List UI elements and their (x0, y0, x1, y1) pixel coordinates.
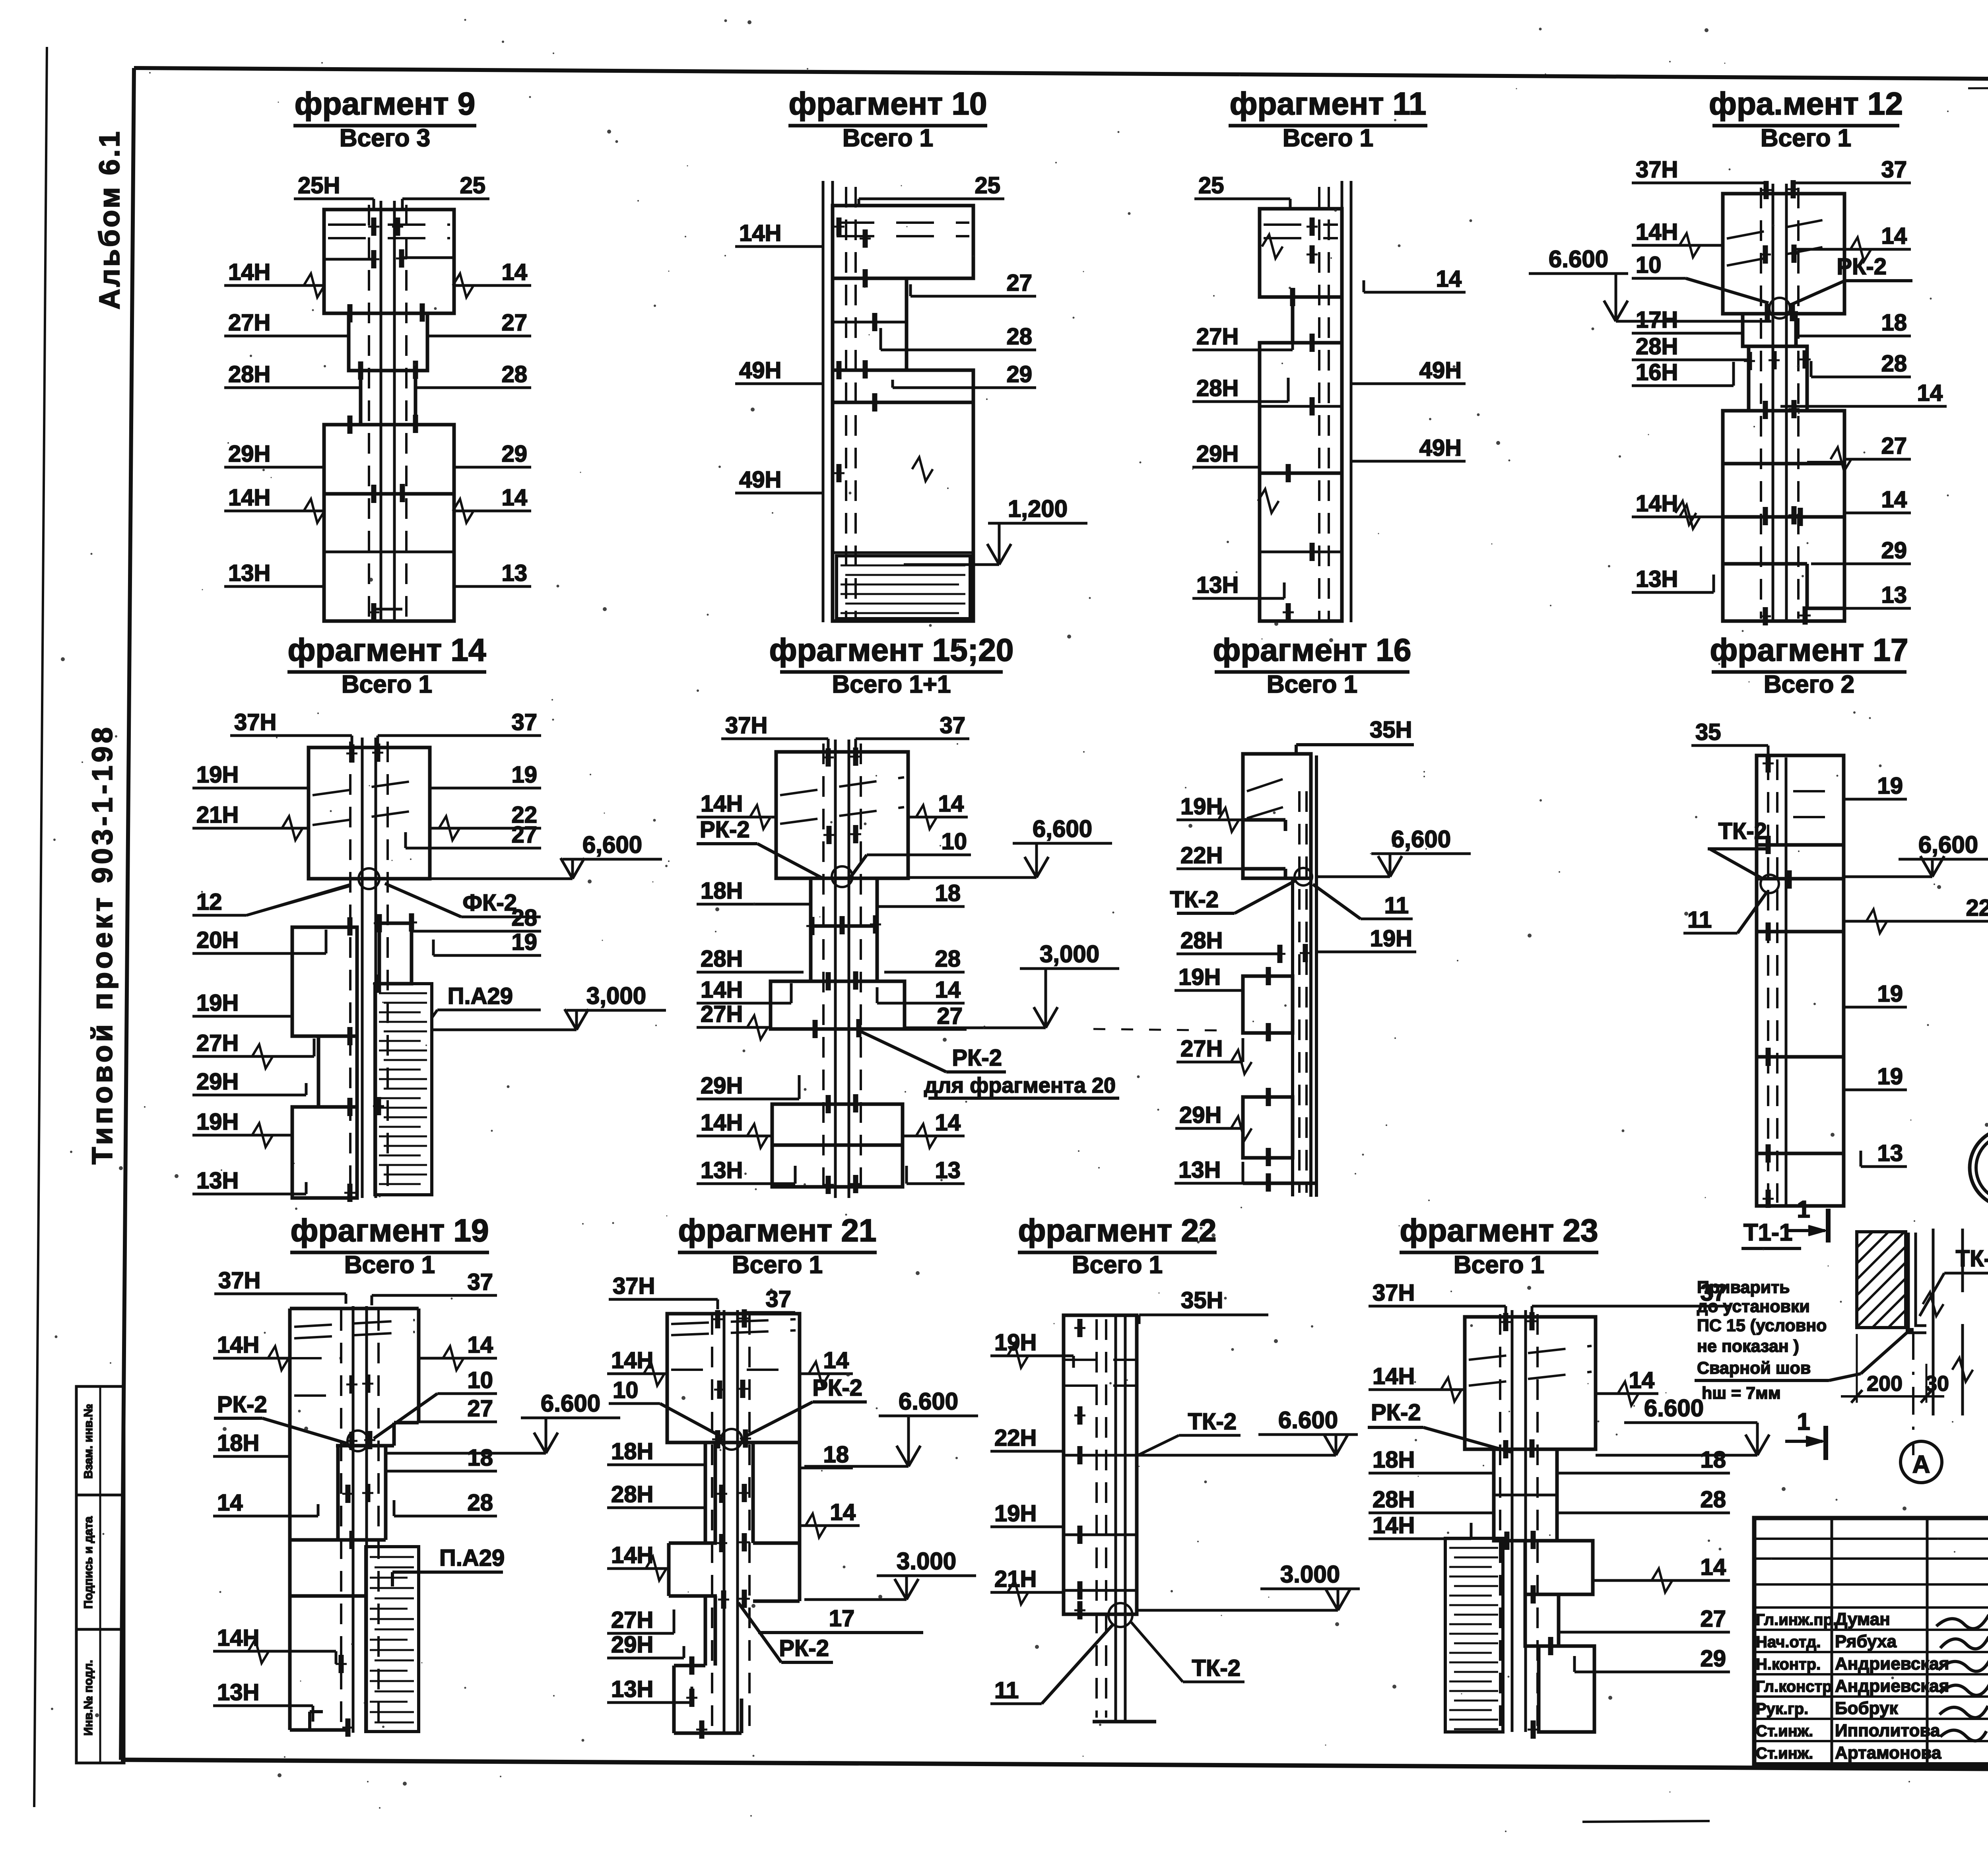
svg-text:Андриевская: Андриевская (1835, 1654, 1949, 1674)
fragment 19 hatch П.А29 (366, 1547, 419, 1732)
svg-text:ТК-2: ТК-2 (1192, 1655, 1241, 1681)
svg-text:Всего 1: Всего 1 (1761, 124, 1851, 152)
svg-text:фрагмент 21: фрагмент 21 (678, 1213, 876, 1248)
svg-text:Н.контр.: Н.контр. (1756, 1656, 1821, 1673)
svg-text:29: 29 (1700, 1646, 1726, 1672)
svg-text:18Н: 18Н (611, 1439, 653, 1464)
svg-text:11: 11 (994, 1677, 1019, 1703)
svg-text:18: 18 (1881, 310, 1907, 336)
svg-text:19: 19 (511, 762, 537, 788)
svg-text:13: 13 (1877, 1140, 1903, 1166)
svg-text:РК-2: РК-2 (952, 1045, 1002, 1071)
svg-text:фрагмент 9: фрагмент 9 (295, 86, 476, 121)
svg-text:18: 18 (935, 880, 961, 906)
fragment 22 ticks (1077, 1319, 1083, 1337)
svg-text:Подпись и дата: Подпись и дата (82, 1516, 95, 1609)
fragment 22 node (1109, 1603, 1132, 1627)
svg-text:27Н: 27Н (1196, 324, 1239, 349)
svg-text:фрагмент 10: фрагмент 10 (788, 86, 987, 121)
title block outer frame (1754, 1518, 1988, 1765)
fragment 21 column (723, 1310, 726, 1734)
svg-text:1: 1 (1797, 1196, 1810, 1223)
svg-text:14Н: 14Н (1636, 219, 1678, 245)
fragment 9 panels (324, 210, 454, 313)
svg-text:27: 27 (511, 822, 537, 848)
svg-text:для фрагмента 20: для фрагмента 20 (924, 1074, 1116, 1097)
node 13 circle (1970, 1128, 1988, 1207)
fragment 14 hatch (panel П.А29) (375, 984, 432, 1195)
fragment 10 panels (833, 206, 973, 278)
svg-text:13Н: 13Н (611, 1676, 653, 1702)
svg-text:РК-2: РК-2 (1837, 254, 1887, 280)
fragment 19 ticks (349, 1375, 355, 1394)
detail A hatched column section (1857, 1232, 1906, 1328)
fragment 15 node (832, 866, 852, 887)
svg-text:28: 28 (1700, 1487, 1726, 1512)
svg-text:18: 18 (1700, 1447, 1726, 1473)
svg-text:6.600: 6.600 (899, 1388, 958, 1415)
svg-text:А: А (1912, 1451, 1930, 1478)
fragment 12 ticks (1764, 181, 1769, 199)
fragment 14 node (359, 868, 379, 889)
svg-text:22: 22 (1966, 895, 1988, 921)
svg-text:28Н: 28Н (228, 361, 270, 387)
svg-text:27Н: 27Н (228, 310, 270, 336)
fragment 17 panel (1757, 755, 1844, 1206)
svg-text:не показан ): не показан ) (1697, 1337, 1799, 1356)
svg-text:3.000: 3.000 (1280, 1561, 1340, 1588)
detail A dim 200 30 (1856, 1334, 1858, 1403)
svg-text:Артамонова: Артамонова (1835, 1743, 1941, 1763)
svg-text:ФК-2: ФК-2 (463, 890, 517, 916)
fragment 11 panels (1260, 209, 1342, 297)
svg-text:29Н: 29Н (228, 441, 270, 467)
svg-text:29: 29 (1881, 538, 1907, 563)
svg-text:фрагмент 14: фрагмент 14 (287, 632, 486, 668)
svg-text:Взам. инв.№: Взам. инв.№ (82, 1404, 95, 1479)
fragment 16 node (1295, 868, 1312, 885)
svg-text:14: 14 (1881, 487, 1907, 513)
svg-text:27Н: 27Н (611, 1607, 653, 1633)
svg-text:6.600: 6.600 (1549, 246, 1608, 272)
fragment 22 wall (1114, 1315, 1117, 1722)
svg-text:14: 14 (501, 485, 527, 511)
svg-text:Ст.инж.: Ст.инж. (1756, 1745, 1813, 1762)
fragment 16 ticks (1277, 945, 1283, 963)
svg-text:Гл.инж.пр.: Гл.инж.пр. (1756, 1611, 1837, 1629)
svg-text:18Н: 18Н (701, 878, 743, 904)
svg-text:27: 27 (501, 310, 527, 336)
svg-text:13Н: 13Н (701, 1157, 743, 1183)
svg-text:6,600: 6,600 (1918, 831, 1978, 858)
svg-text:37: 37 (765, 1286, 791, 1312)
svg-text:49Н: 49Н (1419, 357, 1462, 383)
svg-text:19: 19 (1877, 773, 1903, 799)
svg-text:18Н: 18Н (217, 1430, 259, 1456)
svg-text:13Н: 13Н (196, 1168, 239, 1194)
svg-text:РК-2: РК-2 (812, 1375, 862, 1401)
svg-text:29Н: 29Н (196, 1069, 239, 1095)
detail A panel edge lines right (1932, 1229, 1935, 1415)
title block name rows (1754, 1629, 1988, 1631)
svg-text:28: 28 (511, 905, 537, 931)
svg-text:Всего 1: Всего 1 (342, 671, 432, 698)
svg-text:6.600: 6.600 (1278, 1407, 1338, 1433)
svg-text:29: 29 (501, 441, 527, 467)
fragment 9 ticks (371, 217, 377, 236)
svg-text:Ипполитова: Ипполитова (1835, 1721, 1940, 1740)
svg-text:П.А29: П.А29 (439, 1545, 505, 1571)
svg-text:фра.мент 12: фра.мент 12 (1709, 86, 1903, 121)
svg-text:19Н: 19Н (1180, 794, 1223, 819)
svg-text:Т1-1: Т1-1 (1743, 1219, 1792, 1246)
svg-text:Всего 1: Всего 1 (1283, 124, 1373, 152)
fragment 12 node (1769, 298, 1790, 318)
fragment 17 node (1761, 875, 1779, 893)
svg-text:13Н: 13Н (217, 1679, 259, 1705)
svg-text:27: 27 (467, 1396, 493, 1421)
svg-text:49Н: 49Н (1419, 435, 1462, 461)
svg-text:РК-2: РК-2 (700, 817, 750, 843)
svg-text:6.600: 6.600 (1644, 1395, 1704, 1421)
svg-text:14: 14 (1436, 266, 1462, 292)
svg-text:14: 14 (467, 1332, 493, 1358)
svg-text:Всего 1: Всего 1 (843, 124, 933, 152)
svg-text:28: 28 (501, 361, 527, 387)
svg-text:Рук.гр.: Рук.гр. (1756, 1700, 1808, 1718)
fragment 15 panels (776, 752, 908, 878)
fragment 10 wall (822, 181, 825, 622)
svg-text:6.600: 6.600 (541, 1390, 600, 1417)
left page border line (34, 47, 47, 1807)
svg-text:Нач.отд.: Нач.отд. (1756, 1633, 1821, 1651)
svg-text:29Н: 29Н (1179, 1102, 1221, 1128)
svg-text:21Н: 21Н (196, 802, 239, 828)
svg-text:22Н: 22Н (1180, 843, 1223, 868)
svg-text:13Н: 13Н (1636, 566, 1678, 592)
svg-text:28Н: 28Н (611, 1481, 653, 1507)
fragment 14 ticks (349, 744, 355, 763)
svg-text:25: 25 (975, 173, 1000, 198)
title block left rows upper (1754, 1538, 1988, 1540)
svg-text:28Н: 28Н (1636, 334, 1678, 359)
svg-text:ТК-2: ТК-2 (1718, 818, 1767, 844)
svg-text:37: 37 (1881, 157, 1907, 182)
svg-text:37Н: 37Н (234, 709, 276, 735)
svg-text:14Н: 14Н (701, 791, 743, 817)
svg-text:14: 14 (1881, 223, 1907, 249)
dashed artifact line below frame top (1968, 87, 1988, 88)
fragment 22 panels (1064, 1315, 1137, 1614)
svg-text:200: 200 (1867, 1372, 1903, 1396)
svg-text:29Н: 29Н (701, 1073, 743, 1099)
svg-text:фрагмент 23: фрагмент 23 (1400, 1213, 1598, 1248)
fragment 23 panels (1465, 1317, 1596, 1449)
svg-text:25Н: 25Н (298, 173, 340, 198)
svg-text:19: 19 (1877, 981, 1903, 1007)
svg-text:14Н: 14Н (228, 485, 270, 511)
svg-text:14: 14 (823, 1347, 849, 1373)
svg-text:14: 14 (1917, 380, 1943, 406)
svg-text:Типовой проект 903-1-198: Типовой проект 903-1-198 (87, 724, 118, 1165)
svg-text:14: 14 (935, 977, 961, 1003)
svg-text:11: 11 (1687, 907, 1712, 933)
svg-text:19Н: 19Н (1178, 964, 1221, 990)
svg-text:14Н: 14Н (701, 977, 743, 1003)
svg-text:Всего 1+1: Всего 1+1 (832, 671, 951, 698)
fragment 9 column (380, 201, 382, 621)
svg-text:35Н: 35Н (1370, 717, 1412, 743)
fragment 17 ticks (1766, 754, 1771, 773)
svg-text:29: 29 (1006, 361, 1032, 387)
svg-text:17: 17 (829, 1606, 855, 1631)
fragment 12 panels (1723, 194, 1844, 314)
fragment 21 panels (667, 1314, 800, 1442)
drawing frame (134, 68, 1988, 82)
detail A centerline (1912, 1332, 1914, 1455)
svg-text:13: 13 (935, 1157, 961, 1183)
svg-text:6,600: 6,600 (1033, 815, 1092, 842)
svg-text:13Н: 13Н (1178, 1157, 1221, 1183)
svg-text:ТК-2: ТК-2 (1188, 1409, 1237, 1435)
svg-text:11: 11 (1384, 893, 1409, 918)
svg-text:фрагмент 16: фрагмент 16 (1213, 632, 1411, 668)
fragment 15 ticks (826, 748, 831, 767)
svg-text:Всего 3: Всего 3 (340, 124, 430, 152)
svg-text:27: 27 (1700, 1606, 1726, 1632)
svg-text:Ст.инж.: Ст.инж. (1756, 1722, 1813, 1740)
title block left columns (1831, 1518, 1833, 1765)
svg-text:28: 28 (935, 946, 961, 972)
fragment 15 column (834, 740, 837, 1198)
fragment 11 ticks (1310, 217, 1315, 236)
svg-text:14: 14 (1629, 1367, 1654, 1393)
svg-text:14Н: 14Н (217, 1332, 259, 1358)
fragment 16 panels (1243, 754, 1311, 878)
fragment 14 panels (309, 747, 430, 879)
svg-text:14Н: 14Н (701, 1110, 743, 1136)
svg-text:hш = 7мм: hш = 7мм (1702, 1384, 1781, 1403)
svg-text:10: 10 (467, 1367, 493, 1393)
svg-text:35: 35 (1695, 719, 1721, 745)
svg-text:Всего 1: Всего 1 (1267, 671, 1357, 698)
svg-text:37Н: 37Н (218, 1268, 260, 1293)
svg-text:6,600: 6,600 (582, 831, 642, 858)
svg-text:19Н: 19Н (196, 762, 239, 788)
svg-text:14: 14 (830, 1499, 856, 1525)
svg-text:П.А29: П.А29 (448, 983, 513, 1009)
svg-text:Всего 1: Всего 1 (1454, 1251, 1544, 1279)
detail A weld plate (1908, 1233, 1926, 1333)
svg-text:14Н: 14Н (228, 259, 270, 285)
svg-text:14: 14 (1700, 1554, 1726, 1580)
svg-text:28Н: 28Н (1180, 928, 1223, 953)
svg-text:14Н: 14Н (739, 220, 781, 246)
svg-text:16Н: 16Н (1636, 359, 1678, 385)
svg-text:25: 25 (460, 173, 485, 198)
svg-text:14: 14 (938, 791, 964, 817)
svg-text:РК-2: РК-2 (217, 1392, 267, 1417)
svg-text:19Н: 19Н (196, 990, 239, 1016)
svg-text:3,000: 3,000 (586, 982, 646, 1009)
detail A bubble А (1901, 1441, 1942, 1483)
svg-text:29Н: 29Н (1196, 441, 1239, 467)
svg-text:фрагмент 15;20: фрагмент 15;20 (769, 632, 1014, 668)
svg-text:19Н: 19Н (196, 1109, 239, 1135)
svg-text:25: 25 (1198, 173, 1224, 198)
fragment 21 node (721, 1429, 742, 1450)
svg-text:1,200: 1,200 (1008, 495, 1068, 522)
svg-text:1: 1 (1797, 1408, 1810, 1435)
svg-text:фрагмент 22: фрагмент 22 (1018, 1213, 1216, 1248)
svg-text:3.000: 3.000 (897, 1548, 956, 1574)
svg-text:35Н: 35Н (1181, 1287, 1223, 1313)
left sidebar stamp boxes (76, 1386, 124, 1763)
svg-text:12: 12 (196, 889, 222, 915)
svg-text:27: 27 (937, 1003, 963, 1029)
svg-text:14: 14 (217, 1490, 243, 1516)
fragment 10 ticks (837, 217, 842, 236)
svg-text:37: 37 (467, 1269, 493, 1295)
svg-text:Сварной шов: Сварной шов (1697, 1359, 1811, 1378)
svg-text:37Н: 37Н (725, 713, 767, 738)
svg-text:Инв.№ подл.: Инв.№ подл. (82, 1660, 95, 1736)
svg-text:3,000: 3,000 (1040, 941, 1099, 967)
fragment 11 wall (1341, 181, 1343, 622)
svg-text:Всего 2: Всего 2 (1764, 671, 1854, 698)
svg-text:фрагмент 17: фрагмент 17 (1710, 632, 1908, 668)
svg-text:10: 10 (941, 829, 967, 854)
svg-text:Бобрук: Бобрук (1835, 1699, 1898, 1718)
svg-text:Рябуха: Рябуха (1835, 1632, 1897, 1651)
svg-text:ПС 15 (условно: ПС 15 (условно (1697, 1316, 1827, 1335)
svg-text:6,600: 6,600 (1391, 826, 1451, 852)
svg-text:19: 19 (1877, 1064, 1903, 1089)
fragment 12 column (1772, 184, 1774, 621)
svg-text:Альбом 6.1: Альбом 6.1 (94, 130, 126, 310)
svg-text:20Н: 20Н (196, 927, 239, 953)
svg-text:18Н: 18Н (1373, 1447, 1415, 1473)
svg-text:37Н: 37Н (1636, 157, 1678, 182)
svg-text:28: 28 (1881, 351, 1907, 377)
bottom artifact dash 2 (1582, 1821, 1710, 1822)
svg-text:18: 18 (467, 1445, 493, 1471)
fragment 22 base (1124, 1614, 1127, 1722)
svg-text:28: 28 (467, 1490, 493, 1516)
svg-text:28: 28 (1006, 324, 1032, 349)
svg-text:Андриевская: Андриевская (1835, 1676, 1949, 1696)
svg-text:10: 10 (613, 1377, 639, 1403)
title block signatures (1936, 1613, 1988, 1741)
fragment 19 column (352, 1306, 355, 1733)
svg-text:27Н: 27Н (701, 1001, 743, 1027)
fragment 23 ticks (1503, 1313, 1508, 1331)
svg-text:РК-2: РК-2 (779, 1635, 829, 1661)
svg-text:14: 14 (935, 1110, 961, 1136)
svg-text:19Н: 19Н (994, 1501, 1037, 1526)
svg-text:ТК-2: ТК-2 (1170, 887, 1219, 912)
svg-text:Всего 1: Всего 1 (1072, 1251, 1163, 1279)
svg-text:фрагмент 11: фрагмент 11 (1230, 86, 1427, 121)
svg-text:29Н: 29Н (611, 1632, 653, 1658)
fragment 10 hatch bottom (837, 556, 970, 619)
svg-text:13: 13 (1881, 582, 1907, 608)
svg-text:27Н: 27Н (1180, 1036, 1223, 1062)
svg-text:14: 14 (501, 259, 527, 285)
svg-text:37: 37 (511, 709, 537, 735)
svg-text:ТК-2: ТК-2 (1956, 1246, 1988, 1272)
svg-text:27: 27 (1006, 270, 1032, 296)
svg-text:10: 10 (1636, 252, 1662, 278)
fragment 16 wall (1309, 755, 1312, 1197)
svg-text:22Н: 22Н (994, 1425, 1037, 1451)
svg-text:до установки: до установки (1697, 1297, 1810, 1316)
svg-text:28Н: 28Н (1373, 1487, 1415, 1512)
svg-text:Всего 1: Всего 1 (344, 1251, 435, 1279)
svg-text:13Н: 13Н (228, 560, 270, 586)
svg-text:19: 19 (511, 929, 537, 955)
svg-text:Думан: Думан (1835, 1609, 1890, 1629)
svg-text:фрагмент 19: фрагмент 19 (290, 1213, 489, 1248)
svg-text:27: 27 (1881, 433, 1907, 459)
svg-text:14Н: 14Н (1636, 491, 1678, 516)
svg-text:Приварить: Приварить (1697, 1278, 1790, 1297)
svg-text:28Н: 28Н (701, 946, 743, 972)
svg-text:27Н: 27Н (196, 1030, 239, 1056)
svg-text:37Н: 37Н (1373, 1280, 1415, 1306)
svg-text:49Н: 49Н (739, 357, 781, 383)
fragment 19 node (348, 1431, 368, 1451)
svg-text:19Н: 19Н (1370, 926, 1412, 951)
svg-text:13Н: 13Н (1196, 572, 1239, 598)
svg-text:18: 18 (823, 1442, 849, 1468)
svg-text:37: 37 (940, 713, 965, 738)
svg-text:13: 13 (501, 560, 527, 586)
svg-text:Гл.констр: Гл.констр (1756, 1678, 1832, 1695)
svg-text:49Н: 49Н (739, 467, 781, 493)
fragment 14 column (361, 738, 364, 1198)
svg-text:28Н: 28Н (1196, 375, 1239, 401)
svg-text:14Н: 14Н (1373, 1363, 1415, 1389)
fragment 19 panels (288, 1309, 292, 1596)
svg-text:РК-2: РК-2 (1371, 1400, 1421, 1425)
fragment 21 ticks (715, 1310, 720, 1328)
svg-text:14Н: 14Н (217, 1625, 259, 1651)
svg-text:Всего 1: Всего 1 (732, 1251, 823, 1279)
fragment 23 column (1511, 1310, 1514, 1732)
fragment 23 hatch (1445, 1538, 1503, 1732)
svg-text:14Н: 14Н (1373, 1512, 1415, 1538)
